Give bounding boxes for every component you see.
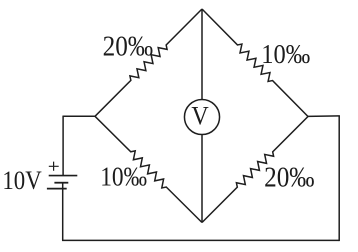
svg-text:10‰: 10‰	[100, 161, 147, 192]
wire: battery top lead	[62, 116, 64, 176]
battery + polarity mark	[49, 162, 59, 171]
wire: battery bottom lead	[62, 183, 64, 241]
wire: voltmeter to bottom node	[201, 134, 203, 222]
battery positive plate (long)	[49, 175, 78, 177]
wire: bottom rail	[62, 239, 339, 241]
wire: left node to battery column	[63, 115, 95, 117]
wire: right rail	[338, 116, 340, 241]
resistor R2 10‰ (top node to right node)	[202, 9, 308, 117]
battery plate lower	[47, 188, 67, 190]
svg-text:10V: 10V	[2, 165, 41, 195]
resistor R4 20‰ (bottom node to right node)	[202, 117, 308, 223]
resistor R3 10‰ (left node to bottom node)	[95, 116, 202, 222]
svg-text:20‰: 20‰	[264, 162, 314, 193]
voltmeter V circle	[184, 99, 219, 134]
svg-text:20‰: 20‰	[103, 32, 153, 63]
battery plate short	[54, 182, 68, 184]
svg-text:V: V	[191, 102, 208, 131]
wire: top node to voltmeter	[201, 9, 203, 100]
svg-text:10‰: 10‰	[261, 38, 310, 69]
wire: right rail to right node	[308, 115, 340, 118]
resistor R1 20‰ (left node to top node)	[95, 9, 202, 116]
